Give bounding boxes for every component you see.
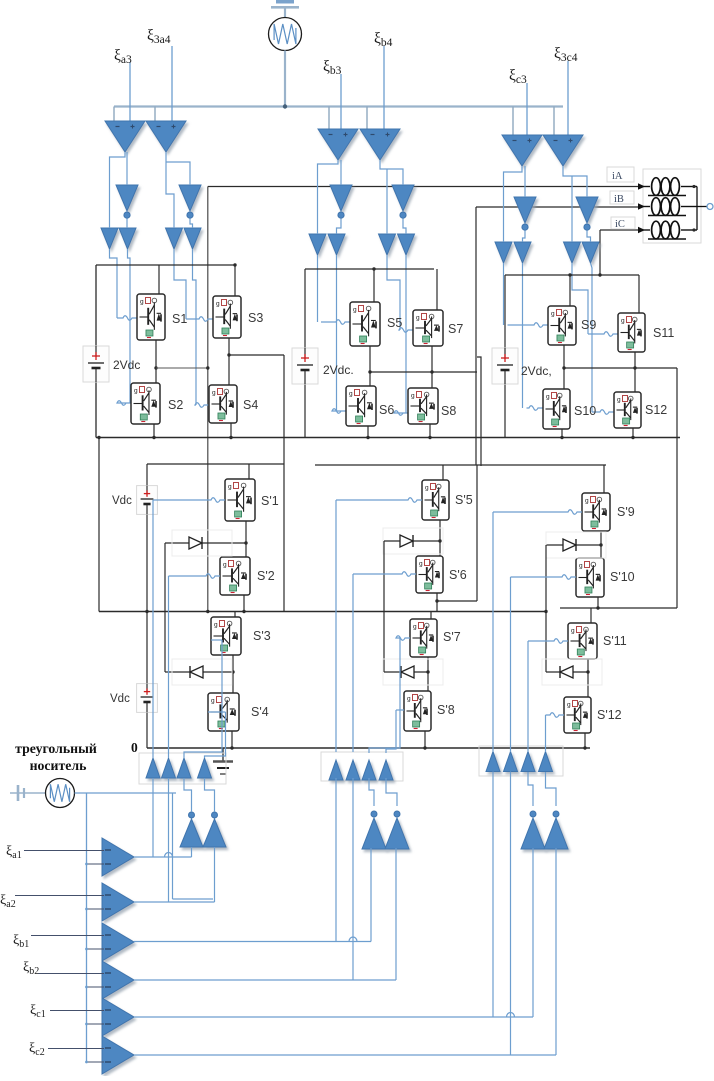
svg-text:треугольный: треугольный bbox=[15, 741, 97, 756]
svg-text:S2: S2 bbox=[168, 398, 183, 412]
svg-text:g: g bbox=[211, 698, 215, 705]
svg-text:g: g bbox=[571, 628, 575, 635]
svg-text:g: g bbox=[216, 301, 220, 308]
svg-text:S'11: S'11 bbox=[603, 634, 627, 648]
svg-text:S5: S5 bbox=[387, 316, 402, 330]
svg-text:g: g bbox=[134, 388, 138, 395]
svg-text:g: g bbox=[621, 318, 625, 325]
svg-text:S'10: S'10 bbox=[610, 570, 635, 584]
svg-text:g: g bbox=[551, 311, 555, 318]
svg-text:S12: S12 bbox=[645, 403, 667, 417]
svg-text:S'2: S'2 bbox=[257, 569, 275, 583]
svg-text:S9: S9 bbox=[581, 318, 596, 332]
svg-text:S10: S10 bbox=[574, 404, 596, 418]
svg-text:g: g bbox=[413, 624, 417, 631]
svg-text:g: g bbox=[419, 561, 423, 568]
svg-text:S11: S11 bbox=[653, 326, 674, 340]
svg-text:S6: S6 bbox=[379, 403, 394, 417]
svg-text:S'3: S'3 bbox=[253, 629, 271, 643]
svg-text:g: g bbox=[617, 397, 621, 404]
svg-text:2Vdc.: 2Vdc. bbox=[323, 363, 354, 377]
svg-text:Vdc: Vdc bbox=[110, 693, 130, 705]
svg-text:g: g bbox=[228, 484, 232, 491]
svg-text:S'9: S'9 bbox=[617, 505, 635, 519]
svg-text:iC: iC bbox=[615, 219, 625, 230]
svg-text:S7: S7 bbox=[448, 322, 463, 336]
svg-text:g: g bbox=[585, 498, 589, 505]
svg-text:g: g bbox=[353, 307, 357, 314]
svg-text:2Vdc: 2Vdc bbox=[113, 358, 140, 372]
svg-text:0: 0 bbox=[131, 740, 138, 755]
svg-text:iB: iB bbox=[614, 194, 624, 205]
svg-text:S'7: S'7 bbox=[443, 630, 461, 644]
svg-text:g: g bbox=[425, 485, 429, 492]
svg-text:Vdc: Vdc bbox=[112, 495, 132, 507]
svg-text:g: g bbox=[349, 391, 353, 398]
svg-text:g: g bbox=[411, 393, 415, 400]
svg-text:g: g bbox=[567, 702, 571, 709]
svg-text:S4: S4 bbox=[243, 398, 258, 412]
svg-text:g: g bbox=[212, 390, 216, 397]
svg-text:g: g bbox=[407, 696, 411, 703]
svg-text:S'12: S'12 bbox=[597, 708, 622, 722]
svg-text:g: g bbox=[546, 394, 550, 401]
svg-text:S'6: S'6 bbox=[449, 568, 467, 582]
svg-text:g: g bbox=[140, 299, 144, 306]
svg-text:S'4: S'4 bbox=[251, 705, 269, 719]
svg-text:iA: iA bbox=[612, 171, 623, 182]
svg-text:2Vdc,: 2Vdc, bbox=[521, 364, 552, 378]
svg-text:S1: S1 bbox=[172, 312, 187, 326]
svg-text:носитель: носитель bbox=[30, 758, 87, 773]
svg-text:S'8: S'8 bbox=[437, 703, 455, 717]
svg-text:g: g bbox=[223, 562, 227, 569]
svg-text:g: g bbox=[579, 563, 583, 570]
svg-text:S'1: S'1 bbox=[261, 494, 279, 508]
svg-text:g: g bbox=[214, 622, 218, 629]
svg-text:S'5: S'5 bbox=[455, 493, 473, 507]
svg-text:S8: S8 bbox=[441, 404, 456, 418]
svg-text:S3: S3 bbox=[248, 311, 263, 325]
svg-text:g: g bbox=[416, 315, 420, 322]
